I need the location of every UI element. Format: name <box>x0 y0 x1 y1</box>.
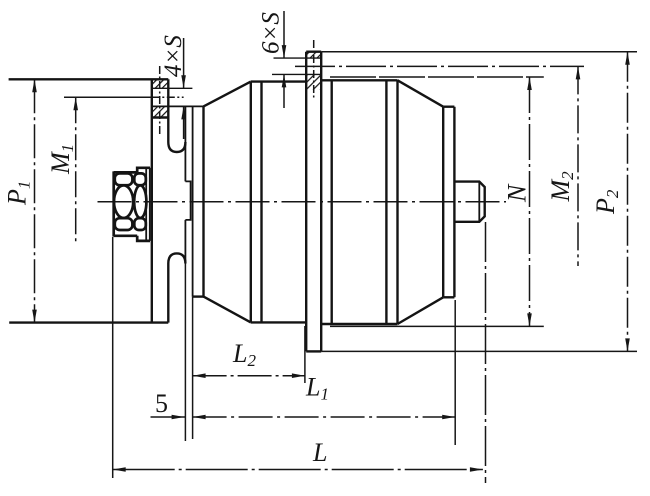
P1 arrow top <box>32 79 37 92</box>
main body top edge left section <box>251 80 306 82</box>
end cap right line <box>453 107 455 298</box>
hex nut top edge <box>114 171 138 174</box>
N arrow top <box>527 77 532 90</box>
hex nut facet blob row1 col2 <box>134 173 146 185</box>
P1 top extension line already in top edge; M1 extension line / bolt hole center <box>64 96 152 98</box>
hatch band bottom of left flange bolt block 4xS <box>152 106 168 117</box>
retainer washer bottom lip <box>137 236 150 241</box>
svg-text:P2: P2 <box>591 189 622 215</box>
N top extension line <box>330 76 544 78</box>
hex nut facet blob row1 col1 <box>115 173 133 185</box>
left flange rim inner edge lower <box>184 220 186 262</box>
L arrow left <box>113 467 126 472</box>
body joint line right of flange <box>331 80 333 324</box>
lower cone edge <box>204 297 251 323</box>
hub boss on left flange <box>185 181 190 220</box>
hex nut facet blob row3 col1 <box>115 218 133 230</box>
P2 arrow bottom <box>625 338 630 351</box>
left flange rim inner edge upper <box>184 106 186 181</box>
hex nut facet blob row3 col2 <box>134 218 146 230</box>
M1 dimension line <box>75 97 77 245</box>
5 arrow pointing right <box>172 415 185 420</box>
L arrow right <box>470 467 483 472</box>
L1 arrow left <box>193 415 206 420</box>
left flange right face lower segment <box>167 264 169 323</box>
6xS arrow lower <box>282 74 287 87</box>
vertical center line of 4xS bolt hole <box>159 66 161 136</box>
L2 arrow left <box>193 373 206 378</box>
vertical center line of 6xS bolt hole top <box>313 40 315 100</box>
hex nut left face <box>112 171 115 236</box>
output stub shaft end chamfer line <box>478 182 480 222</box>
upper cone edge <box>204 82 251 107</box>
6xS dimension line upper segment <box>283 11 285 58</box>
M2 dimension line <box>577 66 579 266</box>
left flange rim top edge and hole bottom edge <box>152 105 204 107</box>
left flange bolt block right edge <box>167 79 169 117</box>
right flange hole center extension to M2 <box>295 65 584 67</box>
M2 arrow top <box>576 66 581 79</box>
end cap left line <box>442 107 444 298</box>
L2 arrow right <box>292 373 305 378</box>
retainer washer left line <box>145 168 147 241</box>
svg-text:P1: P1 <box>3 181 34 206</box>
L dimension line <box>113 469 483 471</box>
hatch band 2 of right flange 6xS top <box>306 74 321 89</box>
main body top edge right section <box>321 79 397 81</box>
left flange plate left face <box>151 79 153 322</box>
5 dimension line <box>151 416 186 418</box>
retainer washer right line <box>149 168 151 241</box>
end cap bottom edge <box>443 296 454 298</box>
right flange bolt hole top edge with extension <box>274 57 322 59</box>
6xS arrow upper <box>282 45 287 58</box>
M1 arrow top <box>73 97 78 110</box>
svg-text:M2: M2 <box>546 171 577 203</box>
right flange 6xS left face <box>305 52 307 352</box>
L2 dimension line <box>193 375 305 377</box>
right flange top edge <box>306 51 321 53</box>
right flange top extension to P2 <box>321 51 637 53</box>
4xS dimension line upper segment <box>183 38 185 88</box>
cone ring left edge <box>202 106 204 296</box>
right flange bottom edge <box>306 350 321 352</box>
svg-text:L2: L2 <box>232 339 256 370</box>
rim inner edge extension down to L2/L1 <box>184 262 186 441</box>
left flange bolt block top edge with P1 extension <box>9 78 169 80</box>
hex nut facet blob row2 col2 <box>134 185 146 218</box>
svg-text:4×S: 4×S <box>160 35 187 77</box>
hex nut bottom edge <box>114 234 138 237</box>
4xS dimension line lower segment <box>183 106 185 139</box>
main body left joint line 2 <box>260 82 262 323</box>
L left extension line <box>112 237 114 478</box>
N bottom extension line <box>330 325 544 327</box>
main body bottom edge right section <box>321 323 397 325</box>
hatch band top of left flange bolt block 4xS <box>152 79 168 88</box>
L right extension line <box>485 222 487 483</box>
main body right joint line 1 <box>385 80 387 324</box>
right flange bottom extension to P2 <box>321 350 637 352</box>
L1 arrow right <box>442 415 455 420</box>
end cap top edge <box>443 105 454 107</box>
right upper cone edge <box>398 80 444 106</box>
P2 arrow top <box>625 52 630 65</box>
left flange upper pocket arc <box>168 142 185 152</box>
hatch band 1 of right flange 6xS top <box>306 52 321 58</box>
main horizontal center line <box>98 201 507 203</box>
N dimension line <box>529 77 531 326</box>
main body right joint line 2 <box>396 80 398 324</box>
left flange bolt block bottom edge <box>151 116 168 118</box>
retainer washer top lip <box>137 168 150 173</box>
svg-text:L: L <box>312 438 327 467</box>
4xS arrow upper <box>181 75 186 88</box>
right lower cone edge <box>398 297 444 324</box>
N arrow bottom <box>527 313 532 326</box>
hex nut facet blob row2 col1 <box>114 185 133 218</box>
plate right face extension down <box>192 297 194 439</box>
cone ring bottom step <box>193 295 204 297</box>
4xS arrow lower <box>181 106 186 119</box>
left flange right face upper segment <box>167 118 169 143</box>
main body bottom edge left section <box>251 321 306 323</box>
left flange lower pocket arc <box>168 253 185 263</box>
L1 right extension line <box>454 300 456 445</box>
svg-text:N: N <box>503 183 532 203</box>
svg-text:M1: M1 <box>46 144 77 175</box>
left flange bottom edge with P1 extension <box>9 321 168 323</box>
output stub shaft outline <box>454 182 484 222</box>
svg-text:6×S: 6×S <box>258 12 285 54</box>
bolt hole center line through 4xS block <box>152 96 184 98</box>
L2 right extension line <box>304 326 306 383</box>
right flange bolt hole bottom edge with extension <box>272 73 321 75</box>
right flange 6xS right face <box>320 52 322 352</box>
6xS dimension line lower segment <box>283 74 285 108</box>
P1 arrow bottom <box>32 310 37 323</box>
left flange bolt hole top edge <box>152 87 192 89</box>
main body left joint line 1 <box>250 82 252 323</box>
svg-text:L1: L1 <box>305 373 329 404</box>
P2 dimension line <box>627 52 629 352</box>
P1 dimension line <box>34 79 36 322</box>
svg-text:5: 5 <box>155 389 168 418</box>
thin plate right face <box>192 106 194 296</box>
L1 dimension line <box>193 416 456 418</box>
